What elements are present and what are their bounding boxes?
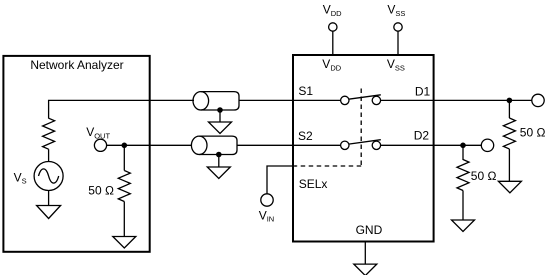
junction at D1 termination (507, 98, 513, 104)
pin label GND (356, 223, 383, 237)
wire: switch 2 to D2 pin (381, 144, 434, 146)
wire: coax1 shield to ground (219, 110, 221, 122)
wire: D1 pin to output port (434, 99, 532, 101)
wire: coax2 to S2 pin (237, 144, 293, 146)
ground (source) (37, 206, 61, 219)
label VDD (supply) (323, 3, 342, 18)
pin label D1 (415, 84, 431, 98)
value label 50 ohm (88, 184, 114, 198)
pin label VSS (387, 57, 405, 72)
junction at VOUT (122, 143, 128, 149)
svg-text:50 Ω: 50 Ω (471, 169, 497, 183)
wire: VDD port to box (332, 31, 334, 55)
resistor R 50 ohm (VOUT termination) (118, 171, 130, 202)
dashed control line (SEL to switches) (295, 89, 361, 167)
label VS (14, 170, 27, 185)
switch SW1 (341, 95, 381, 105)
wire: D2 resistor to ground (462, 191, 464, 221)
pin label S1 (298, 84, 313, 98)
wire: coax2 shield to ground (218, 155, 220, 168)
IC box (switch device) (293, 55, 434, 242)
wire: GND pin to ground (364, 241, 366, 264)
label VIN (259, 208, 275, 223)
AC source VS (34, 162, 63, 191)
pin VSS: port circle (394, 23, 402, 31)
node D1 output port (532, 94, 544, 106)
ground (coax2) (207, 167, 230, 179)
svg-text:50 Ω: 50 Ω (88, 184, 114, 198)
wire: junction to 50 ohm resistor (123, 145, 125, 170)
wire: D1 junction to 50 ohm resistor (508, 100, 510, 118)
node VOUT port (94, 139, 106, 151)
ground (D2 termination) (452, 220, 475, 232)
pin label SELx (299, 177, 328, 191)
label: Network Analyzer (30, 58, 123, 72)
pin VDD: port circle (329, 23, 337, 31)
wire: switch 1 to D1 pin (381, 99, 434, 101)
svg-text:S1: S1 (298, 84, 313, 98)
resistor 50 ohm (D1 termination) (503, 118, 515, 149)
wire: S1 pin to switch 1 (293, 99, 341, 101)
wire: source resistor top to S1 row (49, 100, 194, 118)
wire: VSS port to box (397, 31, 399, 55)
svg-text:D2: D2 (414, 128, 430, 142)
svg-text:S2: S2 (298, 129, 313, 143)
label VOUT (86, 125, 110, 140)
value label 50 ohm (D2) (471, 169, 497, 183)
svg-text:Network Analyzer: Network Analyzer (30, 58, 123, 72)
wire: S2 pin to switch 2 (293, 144, 341, 146)
label VSS (supply) (387, 3, 405, 18)
svg-text:50 Ω: 50 Ω (520, 126, 546, 140)
svg-text:D1: D1 (415, 84, 431, 98)
svg-text:GND: GND (356, 223, 383, 237)
ground (VOUT termination) (113, 237, 136, 249)
pin label S2 (298, 129, 313, 143)
resistor (source series) (43, 118, 55, 149)
ground (GND pin) (354, 264, 377, 275)
wire: D2 junction to 50 ohm resistor (462, 145, 464, 160)
ground (D1 termination) (498, 181, 521, 193)
junction: coax1 shield (217, 107, 223, 113)
node D2 output port (481, 139, 493, 151)
svg-text:SELx: SELx (299, 177, 328, 191)
wire: resistor to ground (123, 202, 125, 237)
coax cable 2 (191, 136, 237, 154)
switch SW2 (341, 140, 381, 150)
resistor 50 ohm (D2 termination) (457, 160, 469, 191)
junction: coax2 shield (216, 152, 222, 158)
ground (coax1) (209, 122, 232, 134)
pin label D2 (414, 128, 430, 142)
wire: resistor to source (48, 149, 50, 161)
wire: D2 pin to output port (434, 144, 482, 146)
coax cable 1 (193, 92, 239, 110)
value label 50 ohm (D1) (520, 126, 546, 140)
wire: VIN port to SELx pin (267, 166, 296, 194)
wire: coax1 to S1 pin (239, 99, 293, 101)
pin label VDD (322, 57, 341, 72)
wire: source to ground (48, 191, 50, 206)
Network Analyzer box (3, 56, 149, 252)
wire: VOUT to coax2 (row 2) (107, 144, 192, 146)
wire: D1 resistor to ground (508, 149, 510, 181)
node VIN port (261, 194, 273, 206)
junction at D2 termination (460, 143, 466, 149)
